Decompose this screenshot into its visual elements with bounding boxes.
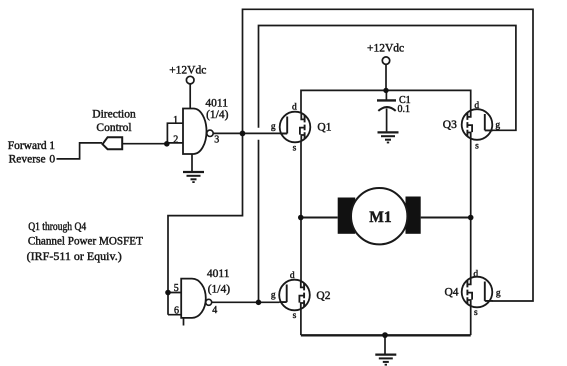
svg-text:Q1: Q1 — [317, 122, 331, 134]
svg-text:Q2: Q2 — [316, 290, 330, 302]
svg-text:Q4: Q4 — [445, 286, 459, 298]
svg-text:2: 2 — [173, 135, 178, 146]
svg-text:d: d — [473, 269, 478, 279]
svg-text:+12Vdc: +12Vdc — [169, 64, 206, 76]
svg-text:+12Vdc: +12Vdc — [367, 43, 404, 55]
svg-text:4011: 4011 — [207, 268, 230, 280]
svg-text:Control: Control — [96, 122, 131, 134]
svg-text:(IRF-511 or Equiv.): (IRF-511 or Equiv.) — [27, 251, 122, 263]
svg-text:g: g — [496, 289, 501, 299]
svg-text:g: g — [495, 121, 500, 131]
svg-text:Direction: Direction — [92, 109, 136, 121]
svg-text:0: 0 — [49, 154, 55, 166]
svg-text:Q3: Q3 — [443, 119, 457, 131]
svg-text:0.1: 0.1 — [398, 104, 411, 115]
svg-text:d: d — [292, 102, 297, 112]
svg-text:s: s — [474, 308, 478, 318]
svg-text:5: 5 — [174, 283, 179, 294]
svg-text:s: s — [293, 144, 297, 154]
svg-text:Reverse: Reverse — [9, 154, 46, 166]
svg-text:g: g — [271, 290, 276, 300]
svg-text:s: s — [475, 141, 479, 151]
svg-text:Channel Power MOSFET: Channel Power MOSFET — [28, 236, 143, 248]
svg-text:4: 4 — [212, 305, 217, 316]
svg-text:1: 1 — [49, 140, 55, 152]
svg-text:(1/4): (1/4) — [206, 109, 229, 121]
svg-text:M1: M1 — [369, 209, 391, 226]
svg-text:Forward: Forward — [8, 140, 47, 152]
svg-text:d: d — [474, 101, 479, 111]
svg-text:6: 6 — [174, 305, 179, 316]
svg-text:Q1 through Q4: Q1 through Q4 — [28, 221, 86, 233]
svg-text:s: s — [293, 311, 297, 321]
svg-text:g: g — [271, 122, 276, 132]
svg-text:1: 1 — [173, 115, 178, 126]
svg-text:d: d — [290, 271, 295, 281]
svg-text:(1/4): (1/4) — [208, 284, 231, 296]
svg-text:4011: 4011 — [205, 98, 228, 110]
svg-text:3: 3 — [214, 135, 219, 146]
